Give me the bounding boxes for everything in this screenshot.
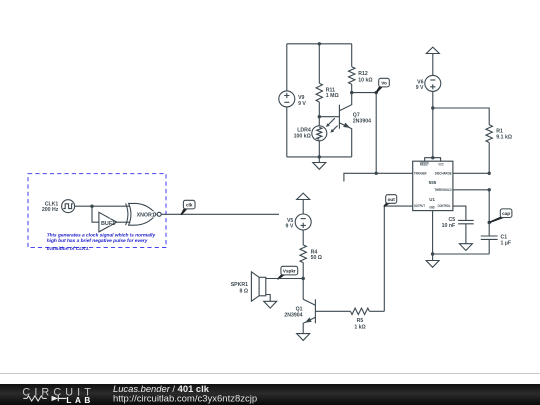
annotation dashed box [28,174,166,248]
wire CONTROL to C5 [453,206,466,220]
label SPKR1 8 Ω [231,282,248,294]
border line above footer [0,373,540,374]
ground G-Q1 [297,334,310,341]
label R5 1 kΩ [354,318,365,330]
flag cap [489,209,512,223]
wire collector to Vo [352,92,377,94]
wire XNOR output [161,213,279,215]
ground G-LDR [313,157,326,169]
speaker SPKR1 [251,272,270,302]
node speaker junction [302,277,305,280]
label 555 [429,180,437,185]
op-amp U1 555 timer box [413,161,453,210]
flag out [384,195,396,206]
annotation blue text [47,233,156,253]
label pin CONTROL [438,204,451,208]
resistor R4 [300,245,306,279]
power flag arrow V5 [297,193,310,214]
label C1 1 µF [501,235,511,247]
label pin VCC [438,163,444,167]
footer url [113,393,257,404]
wire reset-vcc jumper [425,158,441,162]
node base junction [318,115,321,118]
wire THRESHOLD right [453,189,489,191]
label pin THRESHOLD [434,188,452,192]
ground G-SPKR [264,301,277,308]
wire junction to speaker [266,278,303,280]
clock source CLK1 [62,200,92,213]
node trigger/Vo junction [375,172,378,175]
voltage source V9 [279,44,295,157]
node clk junction [90,205,93,208]
wire bottom rail of block [287,156,352,158]
node V6 bottom junction [431,106,434,109]
svg-text:CIRCUIT: CIRCUIT [22,386,92,398]
node bottom rail junction [318,155,321,158]
voltage source V5 [295,214,311,245]
ground G-555 [426,254,439,267]
capacitor C5 [458,220,474,243]
node gnd junction [431,252,434,255]
label pin RESET [420,162,429,166]
CircuitLab logo LAB [66,396,91,405]
node junction top rail [318,42,321,45]
gate XNOR1 [126,203,162,225]
label R11 1 MΩ [326,87,339,99]
resistor R12 [349,44,355,93]
label V6 9 V [416,79,424,91]
transistor Q7 2N3904 [319,93,351,157]
svg-text:LAB: LAB [66,396,91,405]
label U1 [429,197,435,203]
label R4 50 Ω [311,249,322,261]
label pin OUTPUT [414,204,426,208]
label Q1 2N3904 [284,306,302,318]
label pin DISCHARGE [435,172,452,176]
wire GND pin down [433,211,490,254]
node reset/vcc jumper junction [431,156,434,159]
buffer BUF1 [99,212,130,232]
label V9 9 V [298,95,306,107]
node Vo anchor [375,91,378,94]
label R12 10 kΩ [358,71,372,83]
wire TRIGGER net [344,173,413,181]
label R1 9.1 kΩ [496,128,512,140]
wire threshold column down [488,190,490,223]
svg-text:http://circuitlab.com/c3yx6ntz: http://circuitlab.com/c3yx6ntz8zcjp [113,393,257,404]
label LDR4 100 kΩ [294,128,311,140]
wire to XNOR top input [92,205,130,207]
node cap anchor [488,221,491,224]
CircuitLab logo zigzag and diode [23,396,66,402]
node threshold junction [488,188,491,191]
wire top rail of V9/R11/R12 block [287,43,352,45]
CircuitLab logo CIRCUIT [22,386,92,398]
photoresistor LDR4 [312,117,338,157]
footer title Lucas.bender / 401 clk [113,383,210,394]
wire junction down to buffer [92,206,99,222]
footer bar [0,384,540,405]
label pin TRIGGER [414,172,427,176]
node R12/collector junction [350,91,353,94]
flag Vo [376,78,389,92]
transistor Q1 2N3904 [303,279,350,334]
capacitor C1 [481,223,498,255]
label C5 10 nF [442,217,456,229]
wire DISCHARGE to R1 bottom [453,172,489,174]
resistor R11 [316,44,322,117]
wire V6 to R1 top [433,108,489,125]
label V5 9 V [286,218,294,230]
flag clk [181,200,195,214]
label Q7 2N3904 [353,112,371,124]
resistor R5 [350,308,384,314]
ground G-C5 [459,244,472,251]
wire Vo node down to trigger net [375,93,377,174]
flag Vspkr [278,266,298,279]
label CLK1 200 Hz [42,201,59,213]
voltage source V6 [425,75,441,157]
label pin GND [430,206,435,210]
power flag arrow V6 [426,47,439,75]
resistor R1 [486,125,492,174]
node discharge junction [488,172,491,175]
wire OUTPUT net [384,206,412,311]
